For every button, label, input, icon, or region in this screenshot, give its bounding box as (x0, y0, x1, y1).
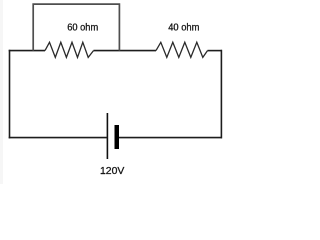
resistor R1 (60 ohm) (45, 42, 94, 57)
wire: bottom-right segment (119, 137, 222, 139)
svg-text:40 ohm: 40 ohm (168, 22, 199, 33)
wire: top-middle segment (94, 50, 157, 52)
wire: left side (9, 50, 11, 139)
wire: parallel loop over R1 (33, 4, 119, 51)
resistor R2 (40 ohm) (156, 42, 208, 57)
battery B1 short thick plate (negative) (115, 125, 120, 149)
svg-text:120V: 120V (100, 166, 125, 177)
wire: top-right segment (208, 50, 223, 52)
label: battery value 120V (with serif foot on the 1) (101, 173, 105, 174)
battery B1 long plate (positive) (106, 113, 108, 159)
svg-text:60 ohm: 60 ohm (67, 22, 98, 33)
wire: right side (220, 50, 222, 139)
wire: top-left segment (9, 50, 45, 52)
wire: bottom-left segment (9, 137, 108, 139)
